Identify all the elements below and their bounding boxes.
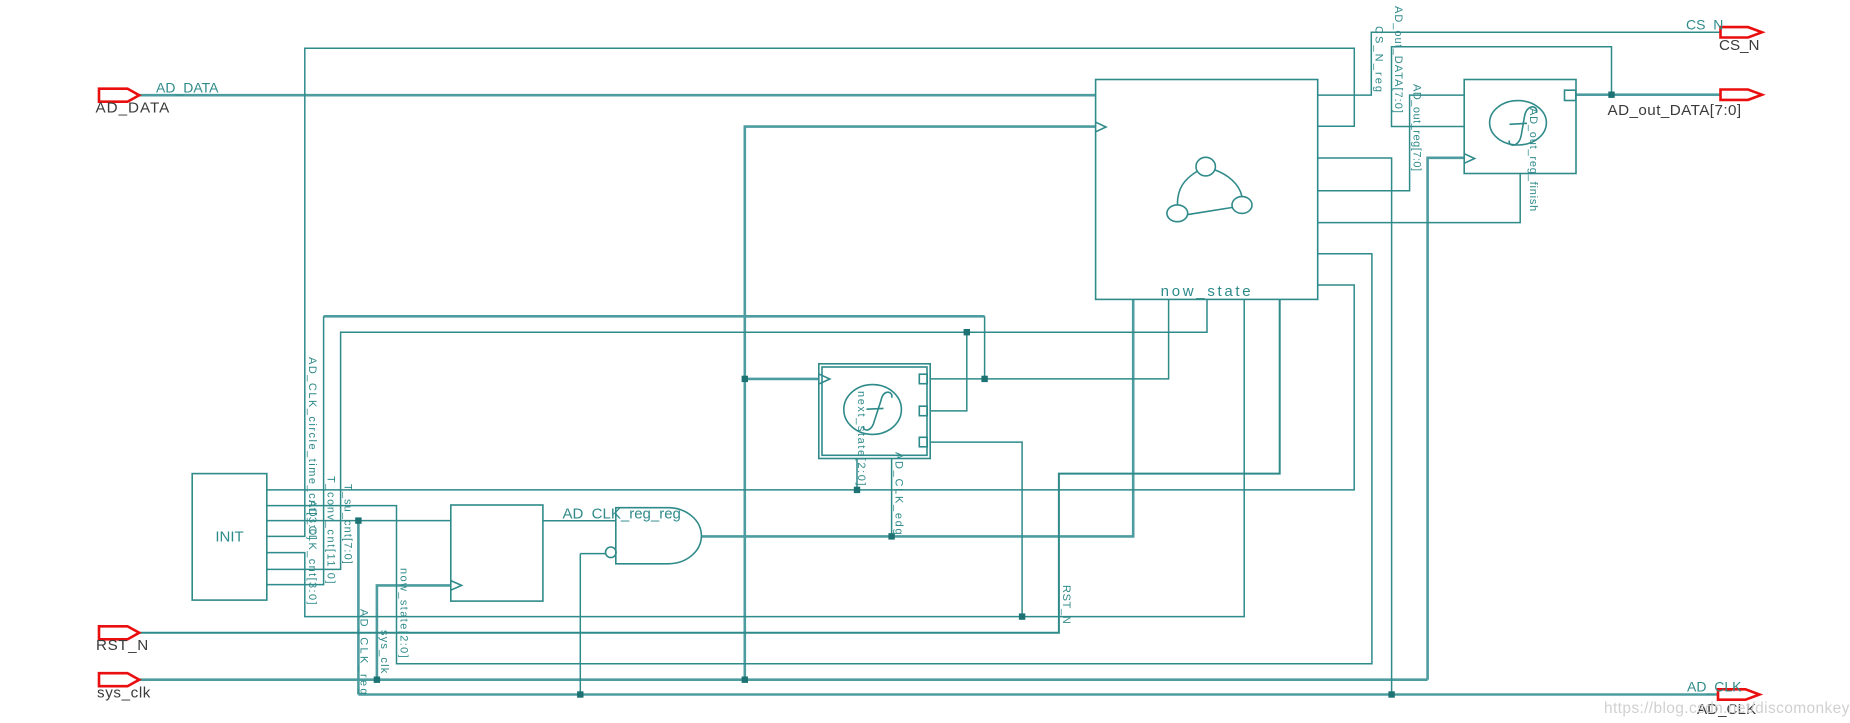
svg-text:AD_CLK_reg: AD_CLK_reg: [358, 609, 370, 697]
svg-text:RST_N: RST_N: [96, 637, 149, 654]
svg-text:AD_out_DATA[7:0]: AD_out_DATA[7:0]: [1608, 102, 1742, 119]
svg-text:AD_out_reg_finish: AD_out_reg_finish: [1527, 108, 1539, 212]
svg-text:now_state: now_state: [1161, 283, 1254, 300]
svg-text:AD_DATA: AD_DATA: [96, 100, 171, 117]
svg-text:T_su_cnt[7:0]: T_su_cnt[7:0]: [342, 484, 354, 565]
svg-text:sys_clk: sys_clk: [378, 630, 390, 674]
svg-text:https://blog.csdn.net/discomon: https://blog.csdn.net/discomonkey: [1604, 700, 1850, 717]
svg-text:AD_CLK: AD_CLK: [1687, 678, 1742, 694]
svg-text:AD_out_DATA[7:0]: AD_out_DATA[7:0]: [1392, 6, 1404, 114]
svg-text:now_state[2:0]: now_state[2:0]: [397, 568, 409, 659]
svg-text:AD_CLK_cnt[3:0]: AD_CLK_cnt[3:0]: [306, 500, 318, 606]
svg-text:AD_out_reg[7:0]: AD_out_reg[7:0]: [1411, 84, 1423, 172]
svg-text:sys_clk: sys_clk: [97, 685, 151, 702]
svg-text:CS_N: CS_N: [1719, 37, 1760, 54]
svg-text:T_conv_cnt[11:0]: T_conv_cnt[11:0]: [325, 476, 337, 585]
svg-text:CS_N: CS_N: [1686, 16, 1723, 32]
svg-text:CS_N_reg: CS_N_reg: [1373, 26, 1385, 94]
svg-text:AD_CLK_edg: AD_CLK_edg: [893, 452, 905, 536]
svg-text:next_state[2:0]: next_state[2:0]: [855, 391, 867, 487]
svg-text:RST_N: RST_N: [1060, 585, 1072, 625]
svg-text:INIT: INIT: [215, 529, 243, 546]
svg-text:AD_DATA: AD_DATA: [156, 79, 219, 95]
svg-text:AD_CLK_reg_reg: AD_CLK_reg_reg: [563, 506, 681, 523]
